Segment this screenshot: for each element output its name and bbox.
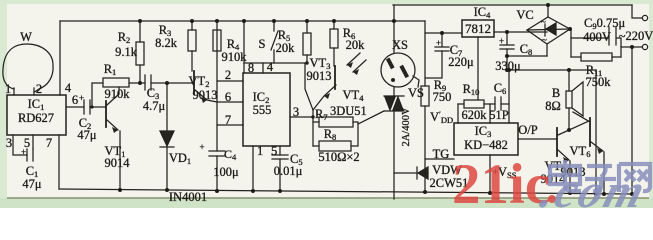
svg-text:20k: 20k (346, 38, 366, 52)
svg-text:100μ: 100μ (213, 165, 239, 179)
svg-text:8.2k: 8.2k (155, 36, 178, 50)
svg-text:47μ: 47μ (22, 177, 42, 191)
svg-text:7: 7 (46, 136, 52, 150)
svg-text:9.1k: 9.1k (115, 45, 138, 59)
svg-text:.com: .com (535, 164, 653, 208)
svg-text:8: 8 (248, 61, 254, 75)
svg-text:750k: 750k (586, 75, 612, 89)
svg-text:20k: 20k (276, 41, 296, 55)
svg-text:1: 1 (5, 82, 11, 96)
svg-text:9014: 9014 (105, 156, 131, 170)
svg-text:+: + (79, 93, 84, 103)
svg-text:2: 2 (225, 68, 231, 82)
svg-text:KD−482: KD−482 (464, 138, 508, 152)
svg-text:1: 1 (257, 144, 263, 158)
svg-text:4: 4 (267, 60, 274, 74)
svg-text:2A/400V: 2A/400V (401, 107, 412, 147)
svg-text:220μ: 220μ (448, 55, 474, 69)
svg-text:5: 5 (271, 144, 277, 158)
svg-text:XS: XS (392, 38, 408, 52)
svg-text:21ic: 21ic (452, 153, 550, 208)
svg-text:+: + (499, 36, 504, 46)
svg-text:4: 4 (65, 81, 72, 95)
svg-text:51P: 51P (489, 108, 509, 122)
svg-text:IN4001: IN4001 (169, 190, 207, 204)
svg-text:+: + (199, 142, 204, 152)
svg-text:330μ: 330μ (495, 59, 521, 73)
svg-text:6: 6 (72, 93, 78, 107)
svg-text:4.7μ: 4.7μ (143, 99, 166, 113)
svg-text:O/P: O/P (518, 123, 538, 137)
svg-text:TG: TG (433, 147, 450, 161)
svg-text:~: ~ (542, 35, 547, 45)
svg-text:2: 2 (36, 82, 42, 96)
svg-text:6: 6 (225, 90, 231, 104)
svg-text:VS: VS (408, 86, 424, 100)
svg-text:620k: 620k (462, 108, 488, 122)
svg-text:555: 555 (253, 103, 272, 117)
svg-text:400V: 400V (583, 30, 611, 44)
svg-text:3DU51: 3DU51 (330, 104, 367, 118)
svg-text:8Ω: 8Ω (545, 99, 561, 113)
svg-text:910k: 910k (222, 50, 248, 64)
svg-text:750: 750 (433, 90, 452, 104)
svg-text:3: 3 (6, 136, 12, 150)
svg-text:7812: 7812 (465, 21, 491, 36)
svg-text:0.01μ: 0.01μ (274, 164, 303, 178)
svg-text:~220V: ~220V (619, 29, 653, 43)
svg-text:S: S (259, 37, 266, 51)
svg-text:B: B (552, 86, 560, 100)
svg-text:W: W (20, 30, 32, 44)
svg-text:510Ω×2: 510Ω×2 (318, 150, 359, 164)
svg-text:3: 3 (293, 105, 299, 119)
svg-text:VC: VC (516, 8, 533, 22)
svg-text:RD627: RD627 (18, 111, 54, 125)
svg-text:+: + (436, 38, 441, 48)
svg-text:~: ~ (541, 17, 546, 27)
svg-text:9013: 9013 (193, 88, 218, 102)
svg-text:+: + (21, 147, 26, 157)
svg-text:910k: 910k (105, 87, 131, 101)
svg-text:9013: 9013 (307, 69, 332, 83)
svg-text:47μ: 47μ (77, 128, 97, 142)
svg-text:7: 7 (225, 113, 231, 127)
